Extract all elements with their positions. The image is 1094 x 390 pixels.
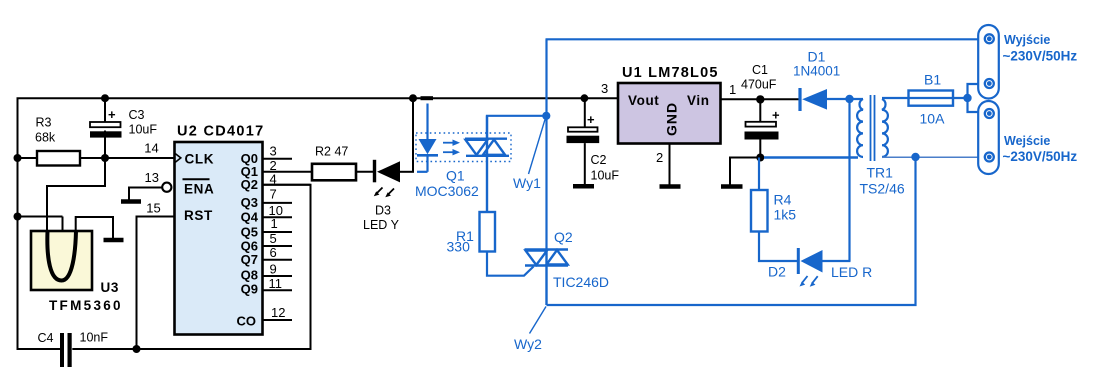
ground ENA [121, 199, 141, 204]
wire fuse to connector bracket [968, 84, 985, 112]
capacitor C3 [104, 98, 106, 124]
svg-text:Q8: Q8 [241, 267, 258, 282]
U2 output labels [237, 151, 259, 329]
svg-text:Wy1: Wy1 [513, 175, 541, 191]
svg-text:1: 1 [271, 216, 278, 231]
svg-text:D2: D2 [768, 264, 786, 280]
wire U1 pin1 to C1 [721, 98, 800, 100]
svg-text:12: 12 [271, 305, 285, 320]
wire C1 bottom to ground [730, 158, 760, 186]
svg-text:D1: D1 [808, 49, 826, 65]
node Wy1 [542, 112, 550, 120]
CLK input triangle [175, 154, 181, 163]
svg-text:R4: R4 [774, 192, 792, 208]
svg-text:13: 13 [145, 170, 159, 185]
wire D1 to TR1 [827, 98, 863, 100]
Q1 triac [465, 116, 509, 213]
svg-text:3: 3 [601, 81, 608, 96]
svg-text:68k: 68k [35, 131, 56, 145]
connector Wejscie pill [978, 101, 999, 174]
svg-text:Wejście: Wejście [1004, 134, 1050, 148]
svg-text:4: 4 [270, 172, 277, 187]
svg-text:U2 CD4017: U2 CD4017 [177, 124, 264, 140]
node C2 top [581, 94, 589, 102]
svg-text:Wyjście: Wyjście [1004, 33, 1050, 47]
node R3 left [14, 154, 22, 162]
svg-text:Q2: Q2 [554, 229, 573, 245]
svg-text:+: + [587, 112, 595, 127]
svg-text:1k5: 1k5 [774, 207, 797, 223]
svg-text:Q2: Q2 [241, 177, 258, 192]
svg-text:TIC246D: TIC246D [553, 274, 609, 290]
svg-text:~230V/50Hz: ~230V/50Hz [1003, 149, 1078, 164]
capacitor C1 [759, 99, 761, 121]
svg-text:LED Y: LED Y [363, 218, 400, 232]
svg-text:Q9: Q9 [241, 282, 258, 297]
svg-text:Q4: Q4 [241, 210, 259, 225]
svg-text:ENA: ENA [184, 182, 214, 197]
terminal Wejscie bottom [985, 153, 994, 162]
ground C1 [721, 184, 743, 189]
connector Wyjscie pill [978, 25, 999, 99]
wire ENA to ground [129, 188, 163, 200]
svg-text:6: 6 [270, 245, 277, 260]
wire thick dash on rail [421, 96, 434, 100]
svg-text:U3: U3 [101, 280, 119, 295]
resistor R1 [480, 212, 496, 252]
svg-text:470uF: 470uF [741, 78, 777, 92]
svg-text:14: 14 [144, 140, 158, 155]
terminal Wyjscie top [985, 34, 994, 43]
node D1/TR1 junction [845, 95, 853, 103]
wire bottom rail [17, 348, 61, 350]
svg-text:B1: B1 [924, 72, 941, 88]
ground U3 [104, 238, 124, 243]
svg-text:Q7: Q7 [241, 252, 258, 267]
svg-text:Q3: Q3 [241, 195, 258, 210]
svg-text:7: 7 [270, 186, 277, 201]
node C1 bottom [756, 154, 764, 162]
regulator U1 LM78L05 [618, 83, 721, 144]
IC U2 CD4017 [175, 142, 263, 335]
svg-text:C4: C4 [38, 331, 54, 345]
node C3/CLK junction [101, 154, 109, 162]
svg-text:Vin: Vin [687, 93, 710, 108]
terminal Wyjscie bottom [985, 79, 994, 88]
resistor R3 [37, 151, 80, 166]
node RST bottom junction [133, 345, 141, 353]
svg-text:C1: C1 [752, 63, 768, 77]
svg-text:Q6: Q6 [241, 238, 258, 253]
fuse B1 [909, 91, 954, 106]
LED D2 [797, 248, 800, 274]
resistor R4 [758, 158, 760, 191]
wire D2 feed vertical [848, 99, 850, 261]
wire TR1 primary bottom [882, 156, 985, 158]
U2 right pin numbers [269, 143, 286, 320]
wire top 230V rail [546, 38, 986, 40]
wire Wy2 bottom rail [547, 157, 916, 305]
Wy1 callout [529, 116, 547, 174]
svg-text:TS2/46: TS2/46 [860, 181, 905, 197]
svg-text:11: 11 [269, 276, 283, 291]
Q1 LED [417, 104, 438, 172]
IR receiver U3 [31, 231, 92, 290]
node fuse output [963, 94, 971, 102]
svg-text:Vout: Vout [628, 93, 659, 108]
svg-text:5: 5 [270, 231, 277, 246]
svg-text:R3: R3 [36, 116, 52, 130]
Wy2 callout [530, 307, 547, 334]
svg-text:R2 47: R2 47 [315, 145, 348, 159]
wire U1 pin2 to ground [669, 144, 671, 185]
wire Q2 pin4 feedback vertical [263, 185, 311, 350]
svg-text:Q5: Q5 [241, 224, 258, 239]
svg-text:D3: D3 [375, 204, 391, 218]
ground C2 [573, 184, 594, 189]
triac Q2 TIC246D [525, 250, 569, 306]
wire left rail to U3 pin B [18, 216, 63, 218]
wire TR1 secondary bottom [764, 156, 858, 158]
svg-text:Wy2: Wy2 [514, 336, 542, 352]
ground U1 [660, 184, 681, 189]
svg-text:TFM5360: TFM5360 [49, 298, 123, 313]
svg-text:GND: GND [664, 102, 680, 136]
wire R4 to D2 [759, 232, 797, 262]
capacitor C2 [584, 98, 586, 127]
Q1 coupling arrows [443, 140, 460, 156]
wire left rail [17, 98, 19, 349]
terminal Wejscie top [985, 109, 994, 118]
node mains bottom junction [911, 153, 919, 161]
svg-text:1N4001: 1N4001 [793, 64, 840, 79]
wire D2 to feed [823, 260, 851, 262]
svg-text:2: 2 [656, 150, 663, 165]
wire RST to bottom rail [137, 217, 175, 350]
wire Q1 triac top to Wy1 [487, 116, 547, 139]
svg-text:1: 1 [729, 82, 736, 97]
wire Wy1 vertical [545, 39, 547, 249]
svg-text:+: + [108, 107, 116, 122]
wire D3 to feed [400, 171, 414, 173]
svg-text:CLK: CLK [185, 151, 215, 166]
svg-text:10uF: 10uF [129, 123, 158, 137]
svg-text:~230V/50Hz: ~230V/50Hz [1003, 49, 1078, 64]
wire top +5V rail [17, 97, 620, 99]
svg-text:15: 15 [146, 200, 160, 215]
ENA inversion bubble pin13 [162, 183, 171, 192]
svg-text:+: + [772, 108, 780, 123]
node MOC feed [409, 94, 417, 102]
wire U3 pin C to ground [76, 217, 113, 238]
svg-text:10A: 10A [920, 110, 946, 126]
wire MOC feed vertical [412, 98, 414, 172]
svg-text:MOC3062: MOC3062 [415, 183, 479, 199]
wire R1 to Q2 gate [487, 252, 534, 276]
svg-text:U1 LM78L05: U1 LM78L05 [622, 65, 719, 81]
transformer TR1 [857, 95, 888, 161]
svg-text:LED R: LED R [831, 264, 872, 280]
svg-text:9: 9 [270, 261, 277, 276]
node C1 top [756, 95, 764, 103]
node U3 pin B rail [14, 213, 22, 221]
wire C3 junction to U3 pin A [47, 158, 105, 231]
node C3 top [101, 94, 109, 102]
svg-text:10uF: 10uF [591, 169, 620, 183]
U2 right pin stubs [263, 159, 313, 320]
optotriac Q1 MOC3062 dashed box [416, 133, 511, 162]
diode D1 [798, 88, 801, 111]
resistor R2 [312, 164, 356, 181]
wire R3/CLK row [18, 157, 175, 159]
capacitor C4 [60, 333, 64, 367]
svg-text:CO: CO [237, 314, 257, 329]
svg-text:Q1: Q1 [446, 168, 465, 184]
svg-text:330: 330 [447, 239, 471, 255]
LED D3 [373, 160, 376, 183]
svg-text:TR1: TR1 [867, 165, 894, 181]
wire TR1 primary top to fuse [882, 97, 965, 99]
svg-text:C3: C3 [129, 108, 145, 122]
wire R2 to D3 [356, 171, 373, 173]
svg-text:3: 3 [270, 143, 277, 158]
svg-text:10nF: 10nF [80, 331, 109, 345]
wire bottom rail right of C4 [72, 348, 310, 350]
svg-text:C2: C2 [591, 153, 607, 167]
svg-text:RST: RST [184, 208, 213, 223]
